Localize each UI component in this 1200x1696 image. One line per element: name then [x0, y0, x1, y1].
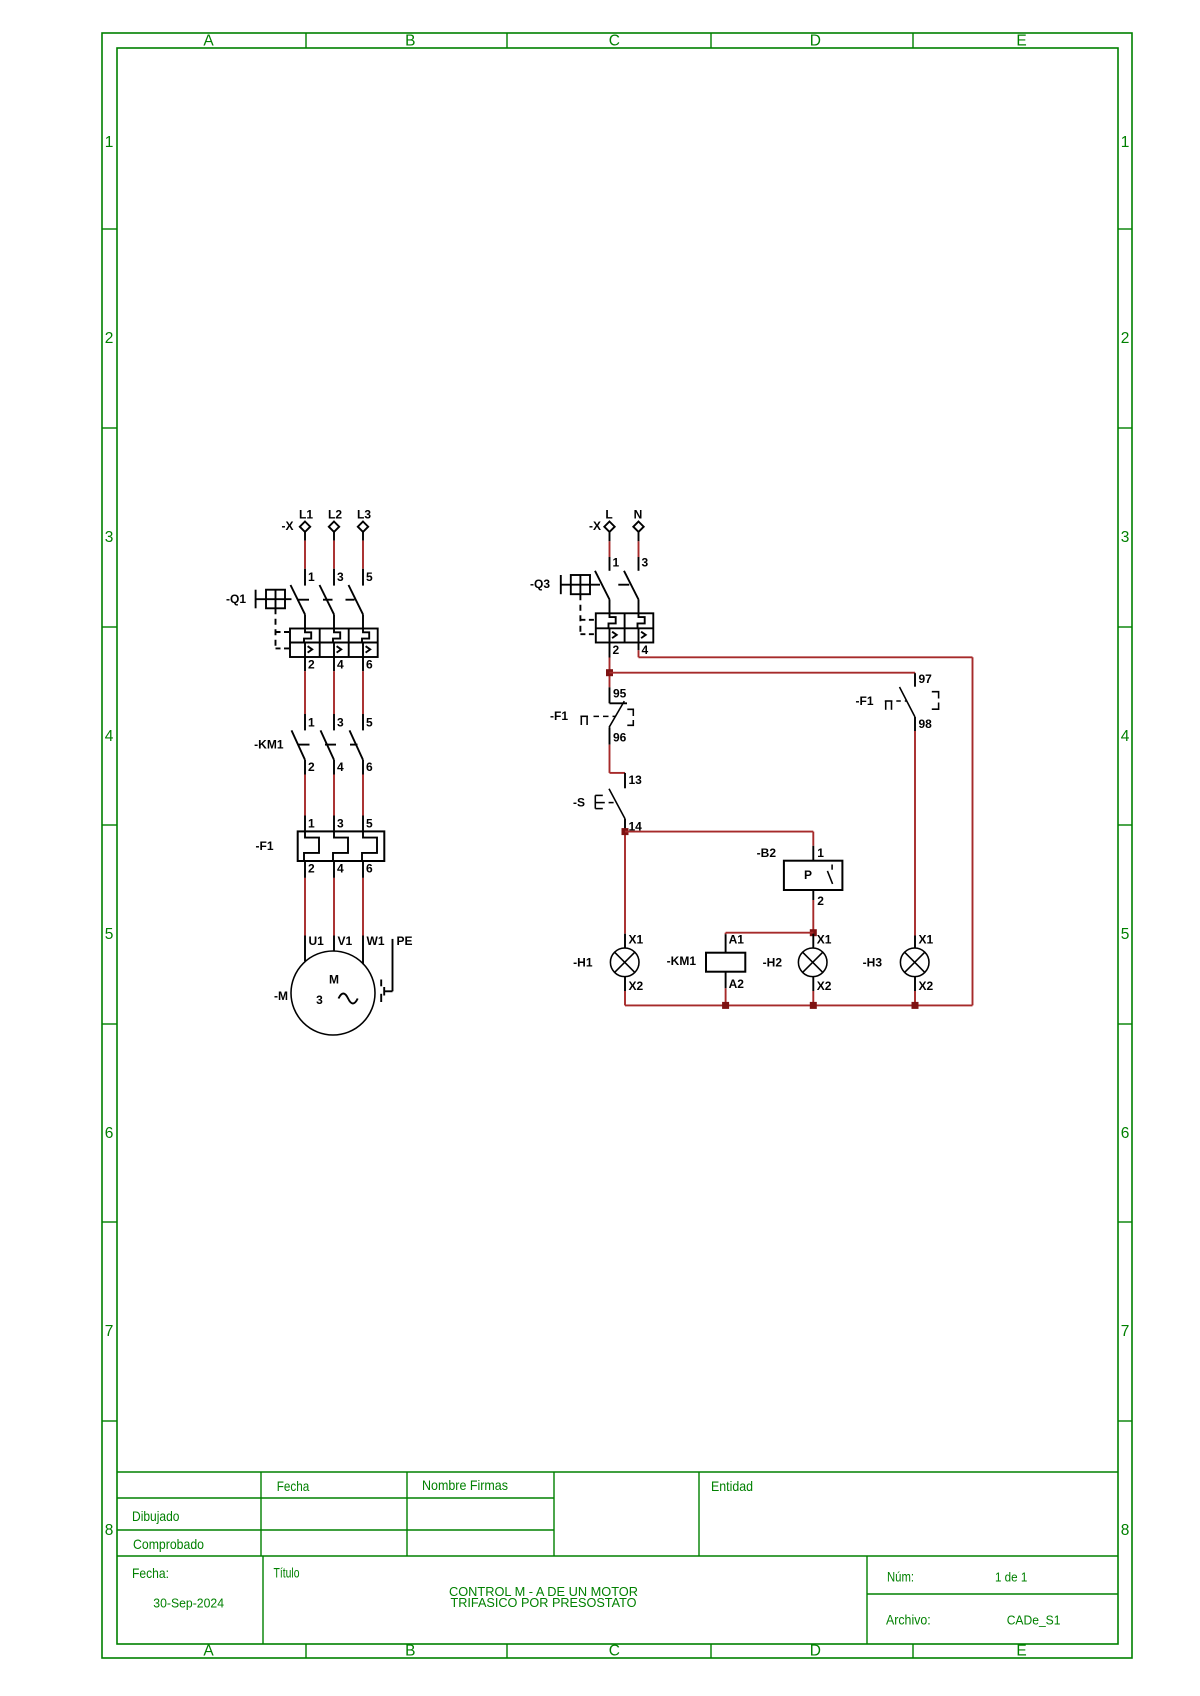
switch S dashed actuation link [609, 802, 617, 804]
svg-text:B: B [405, 1643, 415, 1660]
svg-text:8: 8 [1121, 1522, 1130, 1539]
F1 NC contact seat [610, 702, 628, 704]
svg-text:Comprobado: Comprobado [133, 1536, 204, 1552]
svg-text:X2: X2 [629, 979, 644, 993]
breaker Q3 pole 2 magnetic element [638, 628, 640, 642]
svg-text:1: 1 [105, 134, 114, 151]
svg-text:E: E [1016, 32, 1026, 49]
F1 pin 2 lead and label [304, 861, 306, 878]
wire phase 2 Q1 to KM1 [333, 671, 335, 714]
wire right rail down [972, 657, 974, 1005]
breaker Q1 pole 2 lower pin [333, 614, 335, 628]
lamp H3 [900, 948, 929, 977]
breaker Q3 pole 1 magnetic element [609, 628, 611, 642]
lamp H2 pin X2 lead [812, 977, 814, 991]
svg-text:-S: -S [573, 796, 585, 810]
svg-text:4: 4 [337, 760, 344, 774]
svg-text:X2: X2 [919, 979, 934, 993]
title block grid [117, 1471, 1118, 1473]
svg-text:-Q1: -Q1 [226, 592, 246, 606]
svg-text:95: 95 [613, 687, 627, 701]
svg-text:4: 4 [337, 658, 344, 672]
node junction below S [624, 829, 626, 934]
svg-text:2: 2 [613, 643, 620, 657]
svg-text:Dibujado: Dibujado [132, 1508, 180, 1524]
KM1 pin 2 lead and label [304, 760, 306, 775]
svg-text:2: 2 [308, 658, 315, 672]
lamp H2 pin X1 lead [812, 934, 814, 948]
PE motor frame connection [383, 987, 385, 996]
F1 pin 95 lead [609, 687, 611, 703]
column tick marks bottom [305, 1644, 307, 1658]
svg-text:D: D [810, 1643, 821, 1660]
svg-text:2: 2 [105, 330, 114, 347]
breaker Q3 pole 2 thermal element [638, 613, 645, 628]
breaker Q1 pole 3 blade [349, 585, 364, 614]
svg-text:X1: X1 [629, 933, 644, 947]
svg-text:B: B [405, 32, 415, 49]
svg-text:2: 2 [308, 862, 315, 876]
thermal relay F1 pole 2 element [333, 831, 348, 861]
wire F1 96 to switch S [609, 745, 611, 773]
lamp H3 pin X1 lead [914, 936, 916, 949]
F1 pin 1 lead and label [304, 816, 306, 832]
lamp H1 pin X1 lead [624, 934, 626, 948]
svg-text:C: C [609, 32, 620, 49]
row tick marks left [102, 228, 117, 230]
wire Q3 pin 2 down to F1 95 [609, 658, 611, 688]
thermal relay F1 box [298, 831, 385, 861]
svg-text:6: 6 [366, 862, 373, 876]
terminal L diamond [604, 522, 614, 532]
svg-text:L: L [605, 508, 612, 522]
svg-text:X1: X1 [817, 933, 832, 947]
wire phase 2 terminal to Q1 [333, 532, 335, 541]
wire L terminal to Q3 [609, 532, 611, 541]
svg-text:E: E [1016, 1643, 1026, 1660]
KM1 pin 5 lead and label [362, 714, 364, 730]
svg-text:-F1: -F1 [856, 694, 874, 708]
svg-text:Nombre Firmas: Nombre Firmas [422, 1477, 508, 1493]
svg-text:A2: A2 [729, 977, 745, 991]
wire node to coil KM1 [726, 932, 814, 934]
breaker Q1 pole 3 lower pin [362, 614, 364, 628]
wire A2 to rail [725, 988, 727, 1005]
breaker Q1 pole 3 thermal element [362, 629, 369, 643]
KM1 pin 3 lead and label [333, 714, 335, 730]
F1 dashed actuation link [594, 715, 616, 717]
breaker Q1 operator box [266, 590, 285, 609]
F1 pin 4 lead and label [333, 861, 335, 878]
wire phase 2 F1 to motor [333, 878, 335, 936]
svg-text:13: 13 [629, 773, 643, 787]
svg-text:-X: -X [589, 519, 601, 533]
svg-text:-H3: -H3 [863, 955, 883, 969]
wire phase 1 KM1 to F1 [304, 775, 306, 816]
breaker Q3 operator link line [561, 584, 600, 586]
wire H2 X2 to rail [812, 991, 814, 1005]
svg-text:5: 5 [105, 926, 114, 943]
svg-text:-H1: -H1 [573, 955, 593, 969]
svg-text:PE: PE [397, 934, 413, 948]
svg-text:4: 4 [642, 643, 649, 657]
svg-text:CADe_S1: CADe_S1 [1007, 1613, 1061, 1628]
F1 pin 97 lead [914, 673, 916, 687]
Q1 pin 2 lead [304, 657, 306, 671]
svg-text:A: A [203, 32, 214, 49]
breaker Q3 dashed mechanism link [579, 594, 581, 634]
Q3 pin 4 label and lead [638, 643, 640, 651]
svg-text:-H2: -H2 [763, 955, 783, 969]
border inner frame [117, 48, 1118, 1644]
svg-text:TRIFASICO POR PRESOSTATO: TRIFASICO POR PRESOSTATO [451, 1596, 637, 1610]
breaker Q3 trip unit block [596, 613, 654, 642]
lamp H1 pin X2 lead [624, 977, 626, 991]
F1 pin 98 lead [914, 717, 916, 731]
svg-text:98: 98 [919, 717, 933, 731]
F1 NO release bracket [932, 692, 939, 699]
breaker Q1 linkage dashes [297, 599, 309, 601]
coil KM1 box [706, 953, 745, 972]
F1 dashed actuation link (right) [896, 700, 907, 702]
svg-text:4: 4 [1121, 728, 1130, 745]
KM1 pin 4 lead and label [333, 760, 335, 775]
B2 pin 2 lead [812, 890, 814, 900]
svg-text:-B2: -B2 [757, 846, 777, 860]
breaker Q3 pole 2 blade [624, 571, 639, 600]
breaker Q1 pole 2 magnetic element [333, 643, 335, 658]
F1 pin 6 lead and label [362, 861, 364, 878]
contactor KM1 pole 2 blade [321, 730, 335, 760]
svg-text:Fecha: Fecha [277, 1478, 310, 1494]
svg-text:-F1: -F1 [550, 709, 568, 723]
node junction rail at coil [722, 1002, 729, 1009]
wire phase 3 Q1 to KM1 [362, 671, 364, 714]
svg-text:7: 7 [1121, 1323, 1130, 1340]
F1 NO contact blade (97-98) [900, 687, 916, 717]
svg-text:6: 6 [366, 658, 373, 672]
svg-text:A1: A1 [729, 932, 745, 946]
wire node to pressure switch B2 [625, 831, 813, 833]
svg-text:-F1: -F1 [256, 839, 274, 853]
KM1 pin 1 lead and label [304, 714, 306, 730]
motor M circle [291, 951, 375, 1035]
motor sine wave [339, 994, 358, 1004]
svg-text:-Q3: -Q3 [530, 577, 550, 591]
svg-text:P: P [804, 868, 812, 882]
svg-text:5: 5 [366, 570, 373, 584]
svg-text:3: 3 [105, 529, 114, 546]
svg-text:A: A [203, 1643, 214, 1660]
motor lead U1 [304, 936, 306, 962]
contactor KM1 pole 3 blade [350, 730, 364, 760]
lamp H1 [610, 948, 639, 977]
contactor KM1 pole 1 blade [292, 730, 306, 760]
wire B2 to node [812, 900, 814, 934]
B2 pin 1 lead [812, 846, 814, 861]
contactor KM1 linkage dashes [298, 744, 310, 746]
svg-text:Entidad: Entidad [711, 1478, 753, 1494]
terminal L1 diamond [300, 522, 310, 532]
svg-text:1: 1 [1121, 134, 1130, 151]
svg-text:-KM1: -KM1 [254, 737, 284, 751]
breaker Q1 pole 3 magnetic element [362, 643, 364, 658]
S pin 13 lead [624, 773, 626, 788]
svg-text:-M: -M [274, 989, 288, 1003]
svg-text:5: 5 [366, 817, 373, 831]
svg-text:3: 3 [1121, 529, 1130, 546]
B2 internal contact [831, 865, 833, 870]
breaker Q1 trip unit block [290, 629, 378, 658]
svg-text:2: 2 [1121, 330, 1130, 347]
wire node to F1 97 contact [610, 672, 916, 674]
svg-text:-KM1: -KM1 [667, 954, 697, 968]
svg-text:W1: W1 [367, 934, 385, 948]
node junction rail at H2 [810, 1002, 817, 1009]
svg-text:Fecha:: Fecha: [132, 1565, 169, 1581]
wire phase 3 KM1 to F1 [362, 775, 364, 816]
svg-text:3: 3 [642, 556, 649, 570]
F1 pin 5 lead and label [362, 816, 364, 832]
wire phase 1 terminal to Q1 [304, 532, 306, 541]
wire F1 98 to lamp H3 [914, 731, 916, 936]
breaker Q1 handle bar [255, 590, 257, 609]
wire phase 1 Q1 to KM1 [304, 671, 306, 714]
switch S manual operator E [594, 795, 596, 808]
svg-text:6: 6 [105, 1125, 114, 1142]
svg-text:4: 4 [105, 728, 114, 745]
wire phase 3 terminal to Q1 [362, 532, 364, 541]
PE conductor [392, 939, 394, 991]
svg-text:5: 5 [1121, 926, 1130, 943]
breaker Q1 pole 1 thermal element [304, 629, 311, 643]
svg-text:U1: U1 [309, 934, 325, 948]
breaker Q3 linkage dash [618, 584, 629, 586]
terminal L3 diamond [358, 522, 368, 532]
svg-text:7: 7 [105, 1323, 114, 1340]
svg-text:X2: X2 [817, 979, 832, 993]
wire H1 X2 to rail [624, 991, 626, 1005]
svg-text:L3: L3 [357, 508, 371, 522]
svg-text:2: 2 [817, 894, 824, 908]
svg-text:5: 5 [366, 715, 373, 729]
breaker Q1 pole 1 blade [291, 585, 306, 614]
svg-text:M: M [329, 973, 339, 987]
breaker Q1 pole 2 blade [320, 585, 335, 614]
terminal L2 diamond [329, 522, 339, 532]
svg-text:97: 97 [919, 672, 933, 686]
breaker Q1 pole 1 magnetic element [304, 643, 306, 658]
breaker Q3 pole 1 blade [595, 571, 610, 600]
breaker Q3 pole 1 thermal element [609, 613, 616, 628]
svg-text:L1: L1 [299, 508, 313, 522]
F1 NC release bracket [627, 709, 633, 716]
svg-text:3: 3 [316, 993, 323, 1007]
breaker Q1 pole 2 thermal element [333, 629, 340, 643]
pressure switch B2 box [784, 861, 843, 890]
svg-text:X1: X1 [919, 933, 934, 947]
Q1 pin 4 lead [333, 657, 335, 671]
breaker Q1 operator link line [256, 598, 292, 600]
svg-text:C: C [609, 1643, 620, 1660]
wire H3 X2 to rail [914, 991, 916, 1005]
breaker Q3 handle bar [560, 575, 562, 594]
column tick marks top [305, 33, 307, 48]
F1 thermal function symbol (right) [885, 700, 893, 702]
Q1 pin 6 lead [362, 657, 364, 671]
svg-text:Núm:: Núm: [887, 1569, 914, 1585]
node junction rail at H3 [912, 1002, 919, 1009]
F1 pin 3 lead and label [333, 816, 335, 832]
svg-text:N: N [634, 508, 643, 522]
svg-text:4: 4 [337, 862, 344, 876]
svg-text:1: 1 [613, 556, 620, 570]
Q3 pin 2 label and lead [609, 643, 611, 658]
F1 pin 96 lead [609, 727, 611, 744]
svg-text:D: D [810, 32, 821, 49]
bottom rail wire [625, 1004, 973, 1006]
node junction L branch [606, 669, 613, 676]
KM1 coil pin A1 lead [725, 934, 727, 953]
KM1 coil pin A2 lead [725, 972, 727, 989]
terminal N diamond [633, 522, 643, 532]
svg-text:1: 1 [817, 846, 824, 860]
breaker Q1 dashed mechanism link [275, 608, 277, 648]
S pin 14 lead [624, 819, 626, 829]
svg-text:3: 3 [337, 570, 344, 584]
svg-text:6: 6 [366, 760, 373, 774]
breaker Q1 pole 1 lower pin [304, 614, 306, 628]
svg-text:3: 3 [337, 715, 344, 729]
motor lead V1 [333, 936, 335, 952]
wire N terminal to Q3 [638, 532, 640, 541]
wire phase 1 F1 to motor [304, 878, 306, 936]
svg-text:V1: V1 [338, 934, 353, 948]
KM1 pin 6 lead and label [362, 760, 364, 775]
thermal relay F1 pole 3 element [362, 831, 377, 861]
svg-text:1: 1 [308, 817, 315, 831]
svg-text:Título: Título [274, 1565, 300, 1581]
svg-text:8: 8 [105, 1522, 114, 1539]
svg-text:-X: -X [282, 519, 294, 533]
svg-text:2: 2 [308, 760, 315, 774]
node junction B2 output [810, 929, 817, 936]
svg-text:Archivo:: Archivo: [886, 1612, 931, 1628]
svg-text:1: 1 [308, 570, 315, 584]
lamp H2 [798, 948, 827, 977]
switch S blade [609, 789, 625, 819]
svg-text:96: 96 [613, 731, 627, 745]
svg-text:1: 1 [308, 715, 315, 729]
svg-text:30-Sep-2024: 30-Sep-2024 [153, 1597, 224, 1611]
wire phase 2 KM1 to F1 [333, 775, 335, 816]
svg-text:L2: L2 [328, 508, 342, 522]
wire phase 3 F1 to motor [362, 878, 364, 936]
F1 NC contact blade [609, 701, 624, 727]
breaker Q3 operator box [571, 575, 590, 594]
lamp H3 pin X2 lead [914, 977, 916, 991]
thermal relay F1 pole 1 element [304, 831, 319, 861]
motor lead W1 [362, 936, 364, 965]
svg-text:3: 3 [337, 817, 344, 831]
row tick marks right [1118, 228, 1132, 230]
svg-text:6: 6 [1121, 1125, 1130, 1142]
svg-text:1 de 1: 1 de 1 [995, 1570, 1027, 1585]
wire Q3 pin 4 to right rail [638, 650, 640, 657]
F1 thermal function symbol [580, 715, 588, 717]
